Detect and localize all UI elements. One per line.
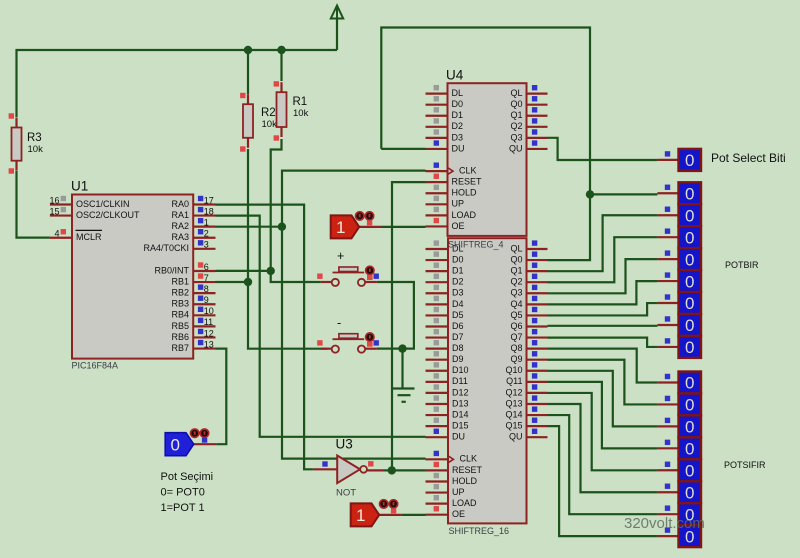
wire U2 Q4 to POTBIR box 5 [548, 281, 658, 304]
svg-text:12: 12 [204, 328, 214, 338]
U2 16-bit shift register pin D0 [426, 251, 464, 264]
wire net RA1: U1 RA1 to U2 DU [216, 216, 426, 437]
svg-text:18: 18 [204, 206, 214, 216]
svg-text:1: 1 [204, 217, 209, 227]
U4 pin HOLD [426, 185, 478, 198]
U2 16-bit shift register pin D4 [426, 296, 464, 309]
svg-text:R2: R2 [261, 107, 276, 119]
U4 pin Q3 [510, 129, 547, 142]
svg-text:CLK: CLK [459, 165, 477, 175]
U2 16-bit shift register pin Q13 [505, 395, 547, 408]
svg-text:POTSIFIR: POTSIFIR [724, 460, 766, 470]
svg-text:9: 9 [204, 295, 209, 305]
U2 16-bit shift register pin UP [426, 484, 465, 497]
wire net RB1: R2 bottom down to '-' button left pin [248, 149, 328, 349]
svg-text:15: 15 [49, 206, 59, 216]
wire U2 Q11 to POTSIFIR box 4 [548, 382, 658, 448]
svg-text:QL: QL [510, 243, 522, 253]
svg-text:HOLD: HOLD [452, 476, 478, 486]
push button "-" [317, 316, 379, 353]
wire net cascade: U4 DU - top rail - U2 Q0 [381, 28, 590, 261]
wire power arrow stem [336, 17, 338, 50]
U4 pin D1 [426, 107, 464, 120]
logicprobe POTSIFIR bit 5 [657, 481, 701, 503]
svg-text:MCLR: MCLR [76, 232, 102, 242]
U2 16-bit shift register pin Q6 [510, 318, 547, 331]
U1 pin 4 MCLR [50, 229, 102, 243]
wire clock bus: U4 CLK down to U2 CLK [282, 171, 426, 459]
svg-text:0: 0 [685, 440, 694, 459]
svg-text:UP: UP [452, 199, 465, 209]
svg-text:10k: 10k [262, 119, 278, 130]
U2 16-bit shift register pin Q15 [505, 418, 547, 431]
svg-text:0: 0 [685, 338, 694, 357]
svg-text:LOAD: LOAD [452, 498, 477, 508]
ground symbol [393, 389, 415, 402]
svg-text:D6: D6 [452, 321, 464, 331]
U2 16-bit shift register pin DU [426, 429, 466, 442]
svg-text:D4: D4 [452, 299, 464, 309]
U2 16-bit shift register pin D10 [426, 362, 469, 375]
U4 pin QU [509, 140, 548, 153]
U2 16-bit shift register pin LOAD [426, 495, 478, 508]
svg-text:D1: D1 [452, 110, 464, 120]
U1 pin 18 RA1 [171, 206, 215, 220]
svg-text:RESET: RESET [452, 465, 483, 475]
wire ground drop [401, 349, 403, 389]
svg-text:RA2: RA2 [171, 221, 189, 231]
U2 16-bit shift register pin D7 [426, 329, 464, 342]
U1 pin 6 RB0/INT [154, 262, 215, 276]
svg-text:8: 8 [204, 284, 209, 294]
junction NOT output / U4 RESET bus [388, 466, 396, 474]
svg-text:10: 10 [204, 306, 214, 316]
U2 16-bit shift register pin Q12 [505, 384, 547, 397]
svg-text:Q6: Q6 [510, 321, 522, 331]
junction RB1 / R2 [244, 278, 252, 286]
svg-text:1: 1 [356, 506, 365, 525]
U2 16-bit shift register pin Q10 [505, 362, 547, 375]
U2 16-bit shift register pin QU [509, 429, 548, 442]
svg-text:Q0: Q0 [510, 254, 522, 264]
U2 16-bit shift register pin D9 [426, 351, 464, 364]
svg-text:1: 1 [336, 218, 345, 237]
svg-text:Q7: Q7 [510, 332, 522, 342]
U4 pin UP [426, 196, 465, 209]
svg-text:10k: 10k [28, 144, 44, 155]
svg-text:RESET: RESET [452, 177, 483, 187]
logicprobe POTBIR bit 2 [657, 226, 701, 248]
U4 pin CLK [426, 162, 477, 175]
logicprobe POTSIFIR bit 6 [657, 503, 701, 525]
logicprobe POTBIR bit 1 [657, 204, 701, 226]
svg-text:0: 0 [685, 184, 694, 203]
svg-text:2: 2 [204, 229, 209, 239]
U2 16-bit shift register pin D1 [426, 263, 464, 276]
wire U2 Q6 to POTBIR box 7 [548, 325, 658, 327]
svg-text:QU: QU [509, 432, 523, 442]
wire U2 Q3 to POTBIR box 4 [548, 259, 658, 293]
svg-text:QU: QU [509, 143, 523, 153]
U4 pin QL [510, 85, 547, 98]
U4 pin D2 [426, 118, 464, 131]
svg-text:0= POT0: 0= POT0 [161, 487, 205, 499]
svg-text:Q3: Q3 [510, 132, 522, 142]
U1 pin 8 RB2 [171, 284, 215, 298]
IC U1 PIC16F84A body [71, 179, 193, 371]
U2 16-bit shift register pin CLK [426, 451, 478, 464]
svg-text:R3: R3 [27, 132, 42, 144]
wire logicstate 1 to U4 OE [382, 226, 426, 228]
svg-text:-: - [337, 316, 341, 330]
wire junction to POTBIR box 1 [590, 193, 657, 195]
svg-text:D14: D14 [452, 409, 469, 419]
svg-text:D2: D2 [452, 277, 464, 287]
svg-text:SHIFTREG_16: SHIFTREG_16 [449, 526, 510, 536]
svg-text:D10: D10 [452, 365, 469, 375]
svg-text:D7: D7 [452, 332, 464, 342]
junction cascade / POTBIR box 1 [586, 190, 594, 198]
U4 pin DL [426, 85, 464, 98]
svg-text:Q12: Q12 [505, 387, 522, 397]
U2 16-bit shift register pin D11 [426, 373, 468, 386]
U2 16-bit shift register pin D3 [426, 285, 464, 298]
wire U2 Q13 to POTSIFIR box 6 [548, 404, 658, 492]
wire U2 Q14 to POTSIFIR box 7 [548, 415, 658, 514]
svg-text:NOT: NOT [336, 488, 356, 499]
U1 pin 11 RB5 [171, 317, 215, 331]
logicstate 1 (U4 OE) [331, 212, 374, 239]
svg-text:Q3: Q3 [510, 288, 522, 298]
svg-text:CLK: CLK [460, 454, 478, 464]
U2 16-bit shift register pin Q7 [510, 329, 547, 342]
logicprobe POTSIFIR bit 1 [657, 393, 701, 415]
svg-text:0: 0 [685, 396, 694, 415]
logicprobe POTBIR bit 3 [657, 248, 701, 270]
U2 16-bit shift register pin Q11 [506, 373, 547, 386]
resistor R1 [274, 81, 309, 141]
junction rail / R2 [244, 46, 252, 54]
svg-text:13: 13 [204, 339, 214, 349]
U1 pin 3 RA4/T0CKI [143, 240, 215, 254]
logicstate 1 (U2 OE) [351, 500, 398, 527]
svg-text:Q2: Q2 [510, 121, 522, 131]
svg-text:UP: UP [452, 487, 465, 497]
svg-text:0: 0 [685, 228, 694, 247]
U2 16-bit shift register pin Q14 [505, 406, 547, 419]
svg-text:RB0/INT: RB0/INT [154, 265, 189, 275]
wire U2 Q5 to POTBIR box 6 [548, 303, 658, 315]
wire logicstate 1 to U2 OE [401, 514, 425, 516]
logicprobe POTBIR bit 5 [657, 292, 701, 314]
svg-text:16: 16 [49, 195, 59, 205]
svg-text:4: 4 [54, 229, 59, 239]
U2 16-bit shift register pin D12 [426, 384, 469, 397]
U4 pin D0 [426, 96, 464, 109]
svg-text:RB7: RB7 [171, 343, 189, 353]
logicprobe POTBIR bit 7 [657, 336, 701, 358]
svg-text:Q1: Q1 [510, 266, 522, 276]
svg-text:6: 6 [204, 262, 209, 272]
U2 16-bit shift register pin Q8 [510, 340, 547, 353]
svg-text:D15: D15 [452, 421, 469, 431]
U2 16-bit shift register pin D15 [426, 418, 469, 431]
U2 16-bit shift register pin D13 [426, 395, 469, 408]
logicstate 1 lower pin stub [379, 514, 401, 516]
svg-text:Q13: Q13 [505, 398, 522, 408]
junction RB0 / R1 [267, 267, 275, 275]
U2 16-bit shift register pin Q2 [510, 274, 547, 287]
svg-text:R1: R1 [293, 96, 308, 108]
U4 pin Q2 [510, 118, 547, 131]
wire NOT output to U2 RESET [384, 469, 426, 471]
svg-text:Pot Select Biti: Pot Select Biti [711, 151, 786, 165]
label Pot Secimi [161, 471, 214, 514]
svg-text:D3: D3 [452, 288, 464, 298]
svg-text:3: 3 [204, 240, 209, 250]
U2 16-bit shift register pin Q9 [510, 351, 547, 364]
svg-text:QL: QL [510, 88, 522, 98]
power symbol VCC arrow [331, 6, 343, 19]
U1 pin 10 RB4 [171, 306, 215, 320]
U1 pin 1 RA2 [171, 217, 215, 231]
resistor R2 [240, 93, 277, 152]
svg-text:RB5: RB5 [171, 321, 189, 331]
svg-text:17: 17 [204, 195, 214, 205]
U2 16-bit shift register pin OE [426, 506, 466, 519]
wire RA2 pin to clock bus [216, 226, 283, 228]
U2 16-bit shift register pin RESET [426, 462, 483, 475]
wire RB0 pin to junction [216, 270, 271, 272]
logicprobe POTSIFIR bit 3 [657, 437, 701, 459]
U1 pin 7 RB1 [171, 273, 215, 287]
wire U4 Q3 to Pot Select Biti probe [548, 138, 658, 160]
U2 16-bit shift register pin D5 [426, 307, 464, 320]
svg-text:D1: D1 [452, 266, 464, 276]
svg-text:LOAD: LOAD [452, 210, 477, 220]
U2 16-bit shift register pin D2 [426, 274, 464, 287]
U4 pin LOAD [426, 207, 477, 220]
svg-text:D11: D11 [452, 376, 468, 386]
resistor R3 [9, 113, 43, 173]
logicprobe POTSIFIR bit 4 [657, 459, 701, 481]
logicprobe POTBIR bit 4 [657, 270, 701, 292]
svg-text:OE: OE [452, 509, 465, 519]
U2 16-bit shift register pin D14 [426, 406, 469, 419]
junction rail / R1 [277, 46, 285, 54]
svg-text:RA1: RA1 [171, 210, 189, 220]
U2 16-bit shift register pin Q0 [510, 251, 547, 264]
wire U2 Q10 to POTSIFIR box 3 [548, 371, 658, 427]
U4 pin Q0 [510, 96, 547, 109]
logicstate 0 pin stub [194, 443, 217, 445]
junction buttons / ground [398, 344, 406, 352]
U1 pin 17 RA0 [171, 195, 215, 209]
svg-text:D5: D5 [452, 310, 464, 320]
U1 pin 13 RB7 [171, 339, 215, 353]
U2 16-bit shift register pin D8 [426, 340, 464, 353]
wire '+' and '-' button right pins common [377, 282, 414, 349]
U4 pin RESET [426, 174, 483, 187]
svg-text:Q11: Q11 [506, 376, 522, 386]
svg-text:U4: U4 [446, 68, 464, 83]
svg-text:Q0: Q0 [510, 99, 522, 109]
svg-text:RB6: RB6 [171, 332, 189, 342]
push button "+" [317, 249, 379, 286]
svg-text:Q14: Q14 [505, 409, 522, 419]
svg-text:DL: DL [452, 88, 464, 98]
U2 16-bit shift register pin QL [510, 240, 547, 253]
wire net RB7 to Pot Secimi logicstate [216, 349, 227, 445]
svg-text:U3: U3 [336, 437, 353, 452]
U2 16-bit shift register pin HOLD [426, 473, 478, 486]
svg-text:0: 0 [685, 374, 694, 393]
svg-text:0: 0 [685, 151, 694, 170]
svg-text:DU: DU [452, 432, 465, 442]
svg-text:0: 0 [685, 294, 694, 313]
svg-text:Q1: Q1 [510, 110, 522, 120]
svg-text:D2: D2 [452, 121, 464, 131]
svg-text:RB4: RB4 [171, 310, 189, 320]
U2 16-bit shift register pin Q1 [510, 263, 547, 276]
svg-text:D12: D12 [452, 387, 469, 397]
svg-text:D8: D8 [452, 343, 464, 353]
svg-text:POTBIR: POTBIR [725, 260, 759, 270]
svg-text:+: + [337, 249, 344, 263]
U2 16-bit shift register pin DL [426, 240, 464, 253]
svg-text:U1: U1 [71, 179, 88, 194]
svg-text:0: 0 [685, 206, 694, 225]
U2 16-bit shift register pin Q3 [510, 285, 547, 298]
wire net RA0: U1 RA0 to U3 NOT input [216, 205, 313, 470]
svg-text:RA4/T0CKI: RA4/T0CKI [143, 243, 189, 253]
gate U3 NOT [313, 437, 384, 499]
logicstate 0 (Pot Secimi) [165, 429, 209, 456]
U1 pin 9 RB3 [171, 295, 215, 309]
svg-text:Q2: Q2 [510, 277, 522, 287]
svg-text:0: 0 [685, 461, 694, 480]
junction RA2 / clock bus [278, 223, 286, 231]
U1 pin 12 RB6 [171, 328, 215, 342]
svg-text:OSC2/CLKOUT: OSC2/CLKOUT [76, 210, 140, 220]
svg-text:Q9: Q9 [510, 354, 522, 364]
svg-text:0: 0 [685, 250, 694, 269]
svg-text:11: 11 [204, 317, 213, 327]
wire to U4 DU pin [381, 148, 425, 150]
wire U2 Q9 to POTSIFIR box 2 [548, 360, 658, 405]
svg-text:OE: OE [452, 221, 465, 231]
svg-text:0: 0 [685, 483, 694, 502]
IC U4 4-bit shift register body [446, 68, 527, 250]
svg-text:D0: D0 [452, 254, 464, 264]
wire U2 Q15 to POTSIFIR box 8 [548, 426, 658, 536]
wire R2 top to rail [247, 50, 249, 94]
svg-text:DU: DU [452, 143, 465, 153]
IC U2 16-bit shift register body [448, 238, 527, 536]
svg-text:RB1: RB1 [171, 276, 189, 286]
wire U2 Q2 to POTBIR box 3 [548, 237, 658, 282]
svg-text:D0: D0 [452, 99, 464, 109]
U4 pin OE [426, 218, 465, 231]
svg-text:0: 0 [170, 436, 179, 455]
logicprobe POTBIR bit 0 [657, 182, 701, 204]
U2 16-bit shift register pin Q5 [510, 307, 547, 320]
svg-text:0: 0 [685, 272, 694, 291]
U4 pin Q1 [510, 107, 547, 120]
svg-text:1=POT 1: 1=POT 1 [161, 502, 205, 514]
svg-text:320volt.com: 320volt.com [624, 515, 705, 532]
svg-text:Q5: Q5 [510, 310, 522, 320]
svg-text:RA0: RA0 [171, 199, 189, 209]
svg-text:RA3: RA3 [171, 232, 189, 242]
svg-text:PIC16F84A: PIC16F84A [72, 361, 119, 371]
svg-text:SHIFTREG_4: SHIFTREG_4 [448, 239, 504, 249]
wire RB1 pin to junction [216, 281, 249, 283]
U2 16-bit shift register pin Q4 [510, 296, 547, 309]
U2 16-bit shift register pin D6 [426, 318, 464, 331]
svg-text:Pot Seçimi: Pot Seçimi [161, 471, 214, 483]
wire U2 Q7 to POTBIR box 8 [548, 338, 658, 347]
svg-text:D3: D3 [452, 132, 464, 142]
logicprobe POTSIFIR bit 0 [657, 372, 701, 394]
svg-text:RB2: RB2 [171, 288, 189, 298]
U4 pin DU [426, 140, 465, 153]
svg-text:OSC1/CLKIN: OSC1/CLKIN [76, 199, 130, 209]
wire R3 bottom to U1 MCLR [17, 171, 50, 238]
logicprobe POTSIFIR bit 7 [657, 525, 701, 547]
logicstate 1 upper pin stub [359, 226, 381, 228]
svg-text:7: 7 [204, 273, 209, 283]
logicprobe Pot Select Biti [657, 149, 701, 171]
wire U2 Q1 to POTBIR box 2 [548, 215, 658, 271]
U1 pin 15 OSC2/CLKOUT [49, 206, 140, 220]
U1 pin 2 RA3 [171, 229, 215, 243]
wire VCC rail top-left (R3 top to power arrow) [17, 50, 338, 117]
svg-text:0: 0 [685, 418, 694, 437]
U4 pin D3 [426, 129, 464, 142]
svg-text:HOLD: HOLD [452, 188, 478, 198]
svg-text:0: 0 [685, 316, 694, 335]
svg-text:Q10: Q10 [505, 365, 522, 375]
svg-text:10k: 10k [293, 108, 309, 119]
wire U2 Q12 to POTSIFIR box 5 [548, 393, 658, 470]
svg-text:D9: D9 [452, 354, 464, 364]
U1 pin 16 OSC1/CLKIN [49, 195, 129, 209]
wire U2 Q8 to POTSIFIR box 1 [548, 349, 658, 383]
svg-text:Q8: Q8 [510, 343, 522, 353]
svg-text:Q4: Q4 [510, 299, 522, 309]
logicprobe POTSIFIR bit 2 [657, 415, 701, 437]
logicprobe POTBIR bit 6 [657, 314, 701, 336]
svg-text:Q15: Q15 [505, 421, 522, 431]
wire R1 top to rail [280, 50, 282, 81]
svg-text:RB3: RB3 [171, 299, 189, 309]
wire net RB0: R1 bottom jog down to '+' button left pin [271, 139, 321, 282]
wire U4 RESET down to NOT output node [392, 182, 426, 470]
svg-text:D13: D13 [452, 398, 469, 408]
